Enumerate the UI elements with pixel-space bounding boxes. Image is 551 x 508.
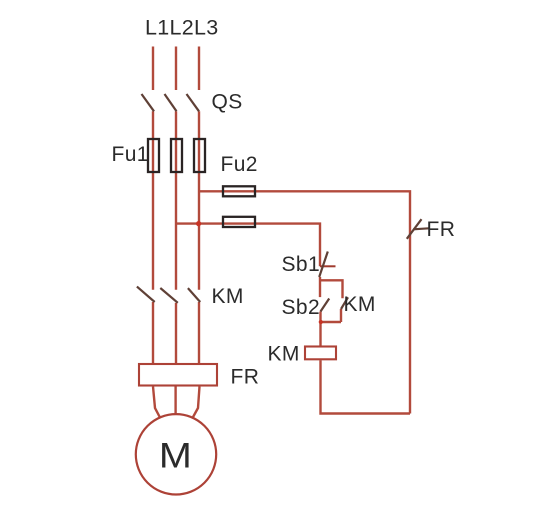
svg-text:KM: KM <box>344 293 376 316</box>
svg-text:FR: FR <box>231 366 260 389</box>
svg-text:Fu2: Fu2 <box>221 153 258 176</box>
svg-text:L1L2L3: L1L2L3 <box>145 16 219 40</box>
svg-text:FR: FR <box>427 218 456 241</box>
svg-text:QS: QS <box>212 91 243 114</box>
svg-text:Fu1: Fu1 <box>112 143 149 166</box>
svg-text:KM: KM <box>268 343 300 366</box>
svg-text:M: M <box>159 436 192 475</box>
svg-text:Sb2: Sb2 <box>282 296 321 319</box>
svg-text:Sb1: Sb1 <box>282 253 321 276</box>
svg-text:KM: KM <box>212 285 244 308</box>
